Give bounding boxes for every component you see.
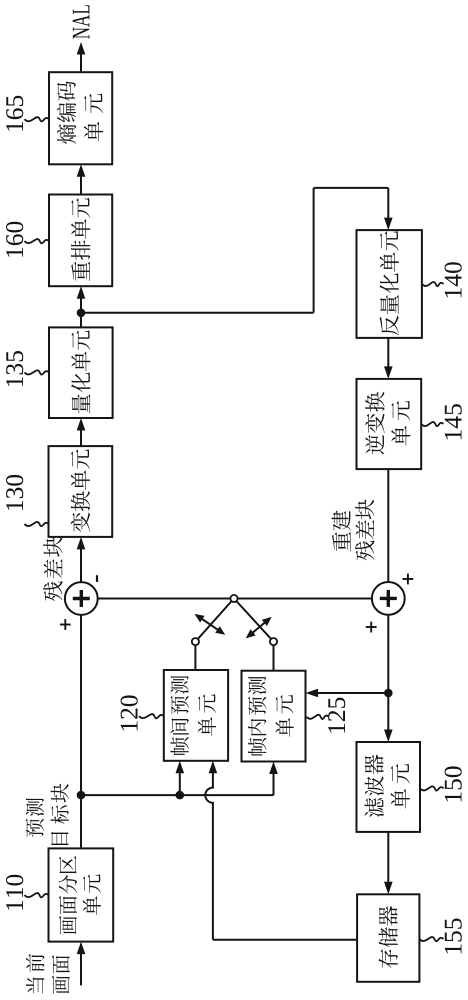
tilde 140 — [422, 282, 444, 286]
label 画面 line2 — [52, 975, 70, 994]
ref label 145 — [445, 430, 462, 439]
wire: tap down to dequant row — [314, 187, 389, 189]
label NAL output — [73, 27, 90, 38]
plus sign at A1 left input — [64, 619, 66, 630]
node J3 reconstructed block tap — [384, 689, 393, 698]
ref label 135 — [6, 377, 23, 386]
wire: switch arm to inter contact — [198, 601, 232, 639]
label text 熵编码/单元 in U165 — [57, 124, 76, 144]
ref label 125 — [328, 724, 345, 733]
label 当前 line1 — [26, 977, 44, 993]
switch contact circle upper — [192, 638, 199, 645]
label 残差块 residual block — [43, 581, 62, 601]
wire: prediction target block line down from J1 — [81, 794, 274, 796]
plus sign at A2 right input — [407, 574, 409, 585]
label text 帧间预测/单元 in U120 — [170, 737, 188, 755]
wire: switch arm to intra contact — [236, 601, 271, 639]
wire: 145 to adder A2 — [387, 469, 389, 582]
node J2 quantized coeff tap — [77, 309, 86, 318]
label text 逆变换/单元 in U145 — [365, 435, 384, 455]
box U120 inter prediction unit — [164, 670, 228, 761]
tilde 120 — [139, 714, 164, 718]
wire: 140 to inverse transform 145 — [387, 338, 389, 369]
ref label 160 — [6, 248, 23, 257]
switch toggle arrow upper — [200, 618, 220, 632]
tilde 135 — [25, 370, 50, 374]
wire: A2 to filter unit 150 — [387, 615, 389, 732]
ref label 130 — [6, 501, 23, 510]
wire: branch arrow into intra unit 125 — [273, 772, 275, 795]
label text 画面分区/单元 in U110 — [59, 916, 77, 935]
tilde 130 — [25, 522, 49, 526]
ref label 110 — [6, 901, 23, 910]
label text 帧内预测/单元 in U125 — [248, 738, 266, 756]
tilde 150 — [420, 786, 444, 790]
wire: memory output up — [213, 939, 357, 941]
label text 量化单元 in U135 — [72, 394, 90, 413]
wire: contact stub to 125 — [273, 645, 275, 671]
ref label 155 — [445, 944, 462, 953]
tilde 160 — [25, 239, 50, 243]
wire: current picture input arrow into U110 — [80, 952, 82, 985]
wire: 135 to 160 — [80, 297, 82, 328]
box U130 transform unit — [49, 446, 113, 537]
box U150 filter unit — [357, 742, 421, 832]
wire: 160 to 165 — [80, 175, 82, 195]
wire: memory output right into 120 with hop over prediction line — [205, 771, 213, 940]
box U140 dequantization unit — [357, 230, 422, 338]
tilde 165 — [25, 117, 50, 121]
label 目标块 line2 — [51, 832, 69, 845]
label 残差块 line2 — [355, 541, 374, 561]
node J4 on prediction line — [176, 791, 185, 800]
tilde 110 — [25, 893, 49, 897]
wire: contact stub to 120 — [194, 645, 196, 670]
label 预测 line1 — [26, 819, 44, 837]
box U110 picture partition unit — [49, 848, 114, 941]
wire: prediction trunk A1 to A2 via switch pole — [98, 598, 372, 600]
wire: U110 output to subtractor A1 — [80, 615, 82, 849]
box U135 quantization unit — [49, 327, 113, 418]
box U160 rearrangement unit — [49, 195, 112, 287]
adder A1 (subtractor) — [65, 582, 98, 615]
box U165 entropy encoding unit — [49, 72, 112, 164]
switch pole circle — [230, 595, 237, 602]
ref label 165 — [6, 122, 23, 131]
tilde 125 — [307, 715, 329, 719]
label text 存储器 in U155 — [379, 949, 398, 968]
tilde 145 — [421, 422, 443, 426]
label text 变换单元 in U130 — [71, 513, 91, 533]
wire: A1 residual to transform unit 130 — [80, 547, 82, 582]
switch contact circle lower — [270, 638, 277, 645]
box U125 intra prediction unit — [242, 671, 306, 762]
box U145 inverse transform unit — [357, 379, 422, 469]
wire: reconstructed samples up into intra unit 125 — [316, 692, 388, 694]
ref label 120 — [121, 721, 138, 730]
wire: branch arrow into inter unit 120 — [179, 771, 181, 795]
wire: arrow into dequantization unit 140 — [387, 188, 389, 220]
wire: tap from node J2 down — [81, 312, 314, 314]
wire: 165 output arrow to NAL — [80, 53, 82, 73]
plus sign at A2 top input — [370, 622, 372, 633]
box U155 memory — [357, 894, 419, 982]
tilde 155 — [419, 937, 443, 941]
switch toggle arrow lower — [251, 621, 267, 634]
label text 反量化单元 in U140 — [380, 316, 399, 336]
wire: tap horizontal segment — [313, 188, 315, 313]
node J1 on main wire — [77, 791, 86, 800]
wire: 130 to 135 — [80, 429, 82, 447]
label text 重排单元 in U160 — [71, 262, 90, 281]
wire: 150 to memory 155 — [387, 832, 389, 884]
ref label 140 — [445, 288, 462, 297]
label 重建 line1 — [332, 532, 351, 551]
adder A2 (reconstruction) — [372, 582, 405, 615]
minus sign at A1 bottom input — [96, 575, 98, 582]
label text 滤波器/单元 in U150 — [365, 798, 384, 818]
ref label 150 — [445, 792, 462, 801]
